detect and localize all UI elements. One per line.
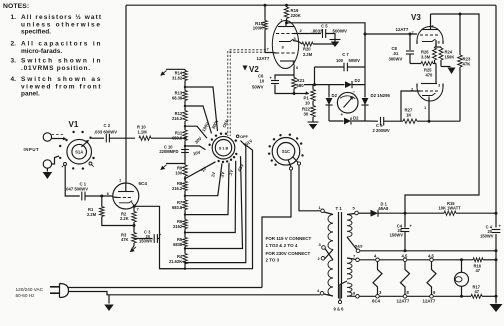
svg-text:150WV: 150WV <box>390 233 404 238</box>
capacitor C8 <box>389 34 415 64</box>
wire P1 top stub <box>312 85 314 90</box>
svg-text:12AT7: 12AT7 <box>423 299 436 304</box>
notes heading <box>3 3 29 10</box>
resistor R26 <box>421 47 437 64</box>
wire C5 to ground stub <box>326 34 335 40</box>
resistor R9 <box>175 165 187 176</box>
tube V1 6C4 <box>113 183 139 209</box>
svg-text:10: 10 <box>260 79 265 84</box>
svg-text:683.8: 683.8 <box>172 205 183 210</box>
V1 designator <box>69 120 79 129</box>
diode D1 <box>371 202 390 217</box>
svg-text:6838: 6838 <box>173 242 183 247</box>
resistor R8 <box>172 181 187 191</box>
wire heater rail A <box>360 249 498 252</box>
wire tap 1V <box>185 163 222 195</box>
resistor R10 <box>137 125 184 141</box>
power label <box>16 287 44 298</box>
resistor R18 <box>253 5 268 52</box>
resistor R15 <box>439 201 462 216</box>
ground jack J2 <box>43 156 59 172</box>
svg-text:V3: V3 <box>411 13 421 22</box>
wire tap OFF long <box>160 144 253 269</box>
capacitor C9 <box>373 117 404 133</box>
wire V1 cathode to attenuator <box>134 206 186 268</box>
wire mains ground drop <box>108 295 110 304</box>
wire wiper to P1 <box>294 91 310 95</box>
capacitor C3 <box>134 229 162 243</box>
svg-text:OFF: OFF <box>240 134 249 139</box>
diode D2 left <box>325 93 337 105</box>
svg-text:S1C: S1C <box>282 149 290 154</box>
ground at R22 <box>308 122 319 130</box>
triode V3 (12AT7) <box>417 14 443 101</box>
V3 pin labels <box>411 24 441 111</box>
wire T1 sec w3 to 8 <box>347 295 356 297</box>
wire V2 cathode down <box>293 67 295 76</box>
ground at R24 <box>448 68 456 75</box>
svg-text:12AT7: 12AT7 <box>257 56 270 61</box>
svg-text:1.1M: 1.1M <box>138 129 148 134</box>
wire heater rail B <box>359 258 497 261</box>
svg-text:3.: 3. <box>11 58 17 65</box>
S1B labels upper <box>192 118 230 156</box>
svg-text:.01: .01 <box>393 51 399 56</box>
input jack J1 <box>43 133 66 141</box>
svg-text:500WV: 500WV <box>333 29 347 34</box>
attenuator column junction nodes <box>184 86 186 270</box>
wire C7 top drop <box>364 34 366 85</box>
V2 type label <box>257 56 270 61</box>
V2 pin labels <box>267 18 303 71</box>
wire R18 to V2 grid <box>265 52 273 54</box>
resistor R11 <box>172 130 187 141</box>
rotary switch S1C <box>268 134 304 171</box>
resistor R3 <box>121 226 136 247</box>
svg-text:specified.: specified. <box>21 29 51 36</box>
node inner rail junction <box>459 13 462 16</box>
terminal T1-1 <box>319 205 334 215</box>
svg-text:220K: 220K <box>291 13 302 18</box>
resistor R27 <box>403 108 417 124</box>
T1 primary upper winding <box>328 215 333 250</box>
svg-text:12AT7: 12AT7 <box>397 299 410 304</box>
svg-text:150WV: 150WV <box>480 234 494 239</box>
resistor R14 <box>172 71 187 81</box>
V1 type label <box>139 181 148 186</box>
svg-text:47K: 47K <box>463 62 472 67</box>
capacitor C4 right <box>480 224 501 239</box>
resistor R2 <box>120 206 136 227</box>
svg-text:FOR 230V CONNECT: FOR 230V CONNECT <box>266 251 311 256</box>
wire tap 30V <box>185 126 207 138</box>
wire R26-R24 tie <box>435 43 442 47</box>
svg-text:All capacitors in: All capacitors in <box>21 41 101 48</box>
wire tap .03V <box>185 156 243 248</box>
svg-text:C 7: C 7 <box>342 52 349 57</box>
resistor R16 <box>473 258 483 273</box>
wire attenuator column <box>184 81 186 269</box>
svg-text:12AT7: 12AT7 <box>396 27 409 32</box>
svg-text:2 200WV: 2 200WV <box>373 128 390 133</box>
svg-text:D2: D2 <box>353 116 359 121</box>
svg-text:50WV: 50WV <box>252 85 264 90</box>
triode V2 (12AT7) <box>272 21 299 69</box>
svg-text:INPUT: INPUT <box>24 147 40 152</box>
wire R25 node to plate2 <box>435 64 437 84</box>
ground at C5 <box>330 40 341 48</box>
terminal T1-8 <box>353 290 359 298</box>
ground bottom right <box>490 296 503 312</box>
svg-text:100: 100 <box>336 58 344 63</box>
V3 type label <box>396 27 409 32</box>
svg-text:.047 500WV: .047 500WV <box>65 187 88 192</box>
svg-text:21.62K: 21.62K <box>169 259 182 264</box>
svg-text:30: 30 <box>304 112 309 117</box>
svg-text:2 TO 3: 2 TO 3 <box>266 258 280 263</box>
terminal T1-4 <box>317 288 324 295</box>
resistor R24 <box>439 47 454 67</box>
resistor R13 <box>172 91 187 101</box>
rotary switch S1B <box>208 133 237 164</box>
notes text <box>11 13 102 98</box>
svg-text:470: 470 <box>426 73 434 78</box>
svg-text:10K 1WATT: 10K 1WATT <box>439 206 462 211</box>
capacitor C6 <box>252 74 294 94</box>
svg-text:47K: 47K <box>121 237 129 242</box>
V3 designator <box>411 13 421 22</box>
wire C7 left drop <box>314 67 316 85</box>
capacitor C10 <box>159 144 188 154</box>
input label <box>24 147 40 152</box>
wire tap 3V <box>185 162 216 179</box>
resistor R5 <box>173 237 187 247</box>
svg-text:31.62: 31.62 <box>172 76 183 81</box>
svg-text:6C4: 6C4 <box>372 299 381 304</box>
node R21 bottom <box>293 92 296 95</box>
resistor R6 <box>173 219 187 229</box>
T1 secondary winding 3 <box>347 283 352 296</box>
svg-text:50-60 Hz: 50-60 Hz <box>16 293 36 298</box>
node R10-column <box>184 137 187 140</box>
wire R24 to ground <box>441 66 451 68</box>
wire V3 lower cathode to node <box>428 97 430 122</box>
svg-text:−: − <box>353 90 356 95</box>
terminal T1-5and9 <box>355 244 363 253</box>
connection note <box>266 236 312 263</box>
svg-text:300WV: 300WV <box>389 57 403 62</box>
svg-text:150WV: 150WV <box>139 239 153 244</box>
T1 primary lower winding <box>328 260 333 296</box>
wire bridge square <box>329 85 365 121</box>
wire mains B <box>69 292 321 295</box>
wire S1C pole2 to T1-1 <box>299 164 321 211</box>
wire tap 100V <box>185 106 212 134</box>
svg-text:3.3M: 3.3M <box>421 55 431 60</box>
heater of 6C4 at x=377.5 <box>372 254 382 304</box>
svg-text:100: 100 <box>175 171 183 176</box>
wire tap .01V long <box>185 141 246 263</box>
ground at J2 <box>43 172 53 179</box>
svg-text:2.2M: 2.2M <box>87 212 97 217</box>
svg-text:All resistors ½ watt: All resistors ½ watt <box>21 13 102 21</box>
wire heater rail C <box>359 295 497 298</box>
node C7 wire top <box>364 33 367 36</box>
terminal T1-5 <box>347 206 358 215</box>
svg-text:T 1: T 1 <box>336 206 343 211</box>
node C1-R1 <box>100 195 103 198</box>
node V1 cathode <box>133 205 136 208</box>
heater of 12AT7 at x=431.5 <box>423 254 437 304</box>
power plug <box>50 284 69 298</box>
resistor R20 <box>299 40 336 58</box>
svg-text:2.2K: 2.2K <box>120 216 129 221</box>
svg-text:S 1 B: S 1 B <box>219 146 229 150</box>
svg-text:4.: 4. <box>11 76 17 83</box>
wire R27 to R23 <box>417 120 460 123</box>
svg-text:50WV: 50WV <box>349 58 361 63</box>
svg-text:viewed from front: viewed from front <box>21 83 101 90</box>
ground arrow at R9 <box>160 164 185 171</box>
wire R23 branch <box>459 14 461 121</box>
svg-text:+: + <box>341 112 344 117</box>
svg-text:R20: R20 <box>303 47 311 52</box>
wire T1-5 to D1 <box>358 212 370 214</box>
resistor R21 <box>292 75 305 94</box>
capacitor C1 <box>65 182 113 201</box>
svg-text:4,5: 4,5 <box>428 254 434 259</box>
wire T1 sec w1 to 5and9 <box>347 237 357 250</box>
node R18 top <box>264 4 267 7</box>
svg-text:683.8: 683.8 <box>172 135 183 140</box>
svg-text:unless otherwise: unless otherwise <box>21 21 100 28</box>
svg-text:FOR 115 V CONNECT: FOR 115 V CONNECT <box>266 236 312 241</box>
wire left B+ drop to 6C4 plate <box>125 5 127 183</box>
svg-text:S1A: S1A <box>75 149 83 154</box>
svg-text:.033 600WV: .033 600WV <box>94 130 117 135</box>
wire tap .1V <box>185 161 236 233</box>
svg-text:micro-farads.: micro-farads. <box>21 48 62 55</box>
svg-text:.0033: .0033 <box>312 29 324 34</box>
heater of 12AT7 at x=405 <box>397 254 410 304</box>
svg-text:216.2: 216.2 <box>172 116 183 121</box>
capacitor C7 <box>315 52 366 71</box>
resistor R22 <box>302 101 315 122</box>
ground at R3 <box>130 246 136 252</box>
wire bridge top-left <box>304 83 329 86</box>
node V2 plate junction <box>285 21 288 24</box>
svg-text:220MMFD: 220MMFD <box>159 149 178 154</box>
T1 label <box>336 206 343 211</box>
svg-text:100K: 100K <box>253 26 264 31</box>
wire C4L to rail <box>404 250 406 252</box>
resistor R19 <box>284 5 301 22</box>
wire B+ top rail <box>126 4 496 6</box>
svg-text:2.2M: 2.2M <box>303 52 313 57</box>
ground arrow at R14 <box>160 69 185 76</box>
wire mains A <box>69 287 263 289</box>
meter M1 <box>337 90 358 118</box>
wire V2 plate to V3 grid <box>287 23 418 34</box>
diode D2 bottom <box>344 116 359 125</box>
svg-text:65A8: 65A8 <box>379 206 390 211</box>
T1 secondary winding 2 <box>347 258 352 279</box>
svg-text:NOTES:: NOTES: <box>3 3 29 10</box>
potentiometer P1 <box>304 90 316 106</box>
wire tap 10V <box>185 146 206 150</box>
svg-text:.01VRMS position.: .01VRMS position. <box>21 65 90 72</box>
svg-text:D2 1N295: D2 1N295 <box>371 93 391 98</box>
diode D2 top <box>345 78 361 88</box>
wire V3 grid2 lead <box>401 91 420 121</box>
wire mains A riser to S1C <box>262 169 291 288</box>
switch gang link <box>228 50 267 136</box>
S1B labels lower <box>200 138 253 179</box>
resistor R4 <box>169 254 187 265</box>
svg-text:9 & 6: 9 & 6 <box>334 307 345 312</box>
svg-text:C 2: C 2 <box>104 123 111 128</box>
wire S1A to C1 drop <box>65 166 80 197</box>
resistor R1 <box>87 196 134 226</box>
wire bridge to C9 <box>365 120 378 122</box>
node V3 grid-C8 <box>409 33 412 36</box>
svg-text:47: 47 <box>476 268 481 273</box>
svg-text:1.: 1. <box>11 14 17 21</box>
wire tap .3V <box>185 163 229 215</box>
svg-text:68.38: 68.38 <box>172 96 183 101</box>
svg-text:4,5: 4,5 <box>402 254 408 259</box>
V1 pin labels <box>107 178 140 212</box>
svg-text:V1: V1 <box>69 120 79 129</box>
svg-text:216.2: 216.2 <box>172 186 183 191</box>
pilot lamp <box>455 258 469 298</box>
wire tap 300V <box>185 87 218 131</box>
T1 secondary winding 1 <box>347 215 352 237</box>
svg-text:680: 680 <box>297 83 305 88</box>
terminal T1-2 <box>318 256 325 261</box>
svg-text:120/240 VAC: 120/240 VAC <box>16 287 44 292</box>
wire right outer rail <box>495 5 497 302</box>
wire T1-4 to winding <box>324 294 333 296</box>
svg-text:6C4: 6C4 <box>139 181 148 186</box>
svg-text:10: 10 <box>305 101 310 106</box>
T1 core <box>339 212 342 299</box>
V2 designator <box>243 65 260 74</box>
wire V2 pin2 to C5 <box>299 33 321 35</box>
terminal T1-9and6 <box>334 281 348 312</box>
resistor R17 <box>471 285 482 299</box>
diode D2 right <box>361 93 390 105</box>
terminal T1-7 <box>353 253 359 261</box>
svg-text:1K: 1K <box>406 113 412 118</box>
node R19 top <box>285 4 288 7</box>
wire inner top rail <box>405 14 479 213</box>
svg-text:1 TO3 & 2 TO 4: 1 TO3 & 2 TO 4 <box>266 243 298 248</box>
capacitor C4 left <box>390 213 413 251</box>
resistor R23 <box>458 55 472 67</box>
capacitor C2 <box>92 123 136 142</box>
S1B OFF label <box>236 134 248 139</box>
terminal T1-3 <box>319 242 326 249</box>
wire T1 sec w2 to 7 <box>347 258 356 259</box>
svg-text:D2: D2 <box>355 78 361 83</box>
resistor R25 <box>410 62 436 78</box>
svg-text:D2: D2 <box>332 93 338 98</box>
svg-text:panel.: panel. <box>21 91 40 98</box>
wire T1 cross connect <box>325 249 334 261</box>
resistor R12 <box>172 111 187 122</box>
svg-text:2162: 2162 <box>173 224 183 229</box>
capacitor C5 <box>312 24 347 39</box>
rotary switch S1A <box>59 131 95 170</box>
ground at mains <box>104 305 114 312</box>
wire rectifier line <box>379 212 498 215</box>
svg-text:2.: 2. <box>11 41 17 48</box>
svg-text:47: 47 <box>475 289 480 294</box>
svg-text:150K: 150K <box>445 55 455 60</box>
resistor R7 <box>172 200 187 210</box>
